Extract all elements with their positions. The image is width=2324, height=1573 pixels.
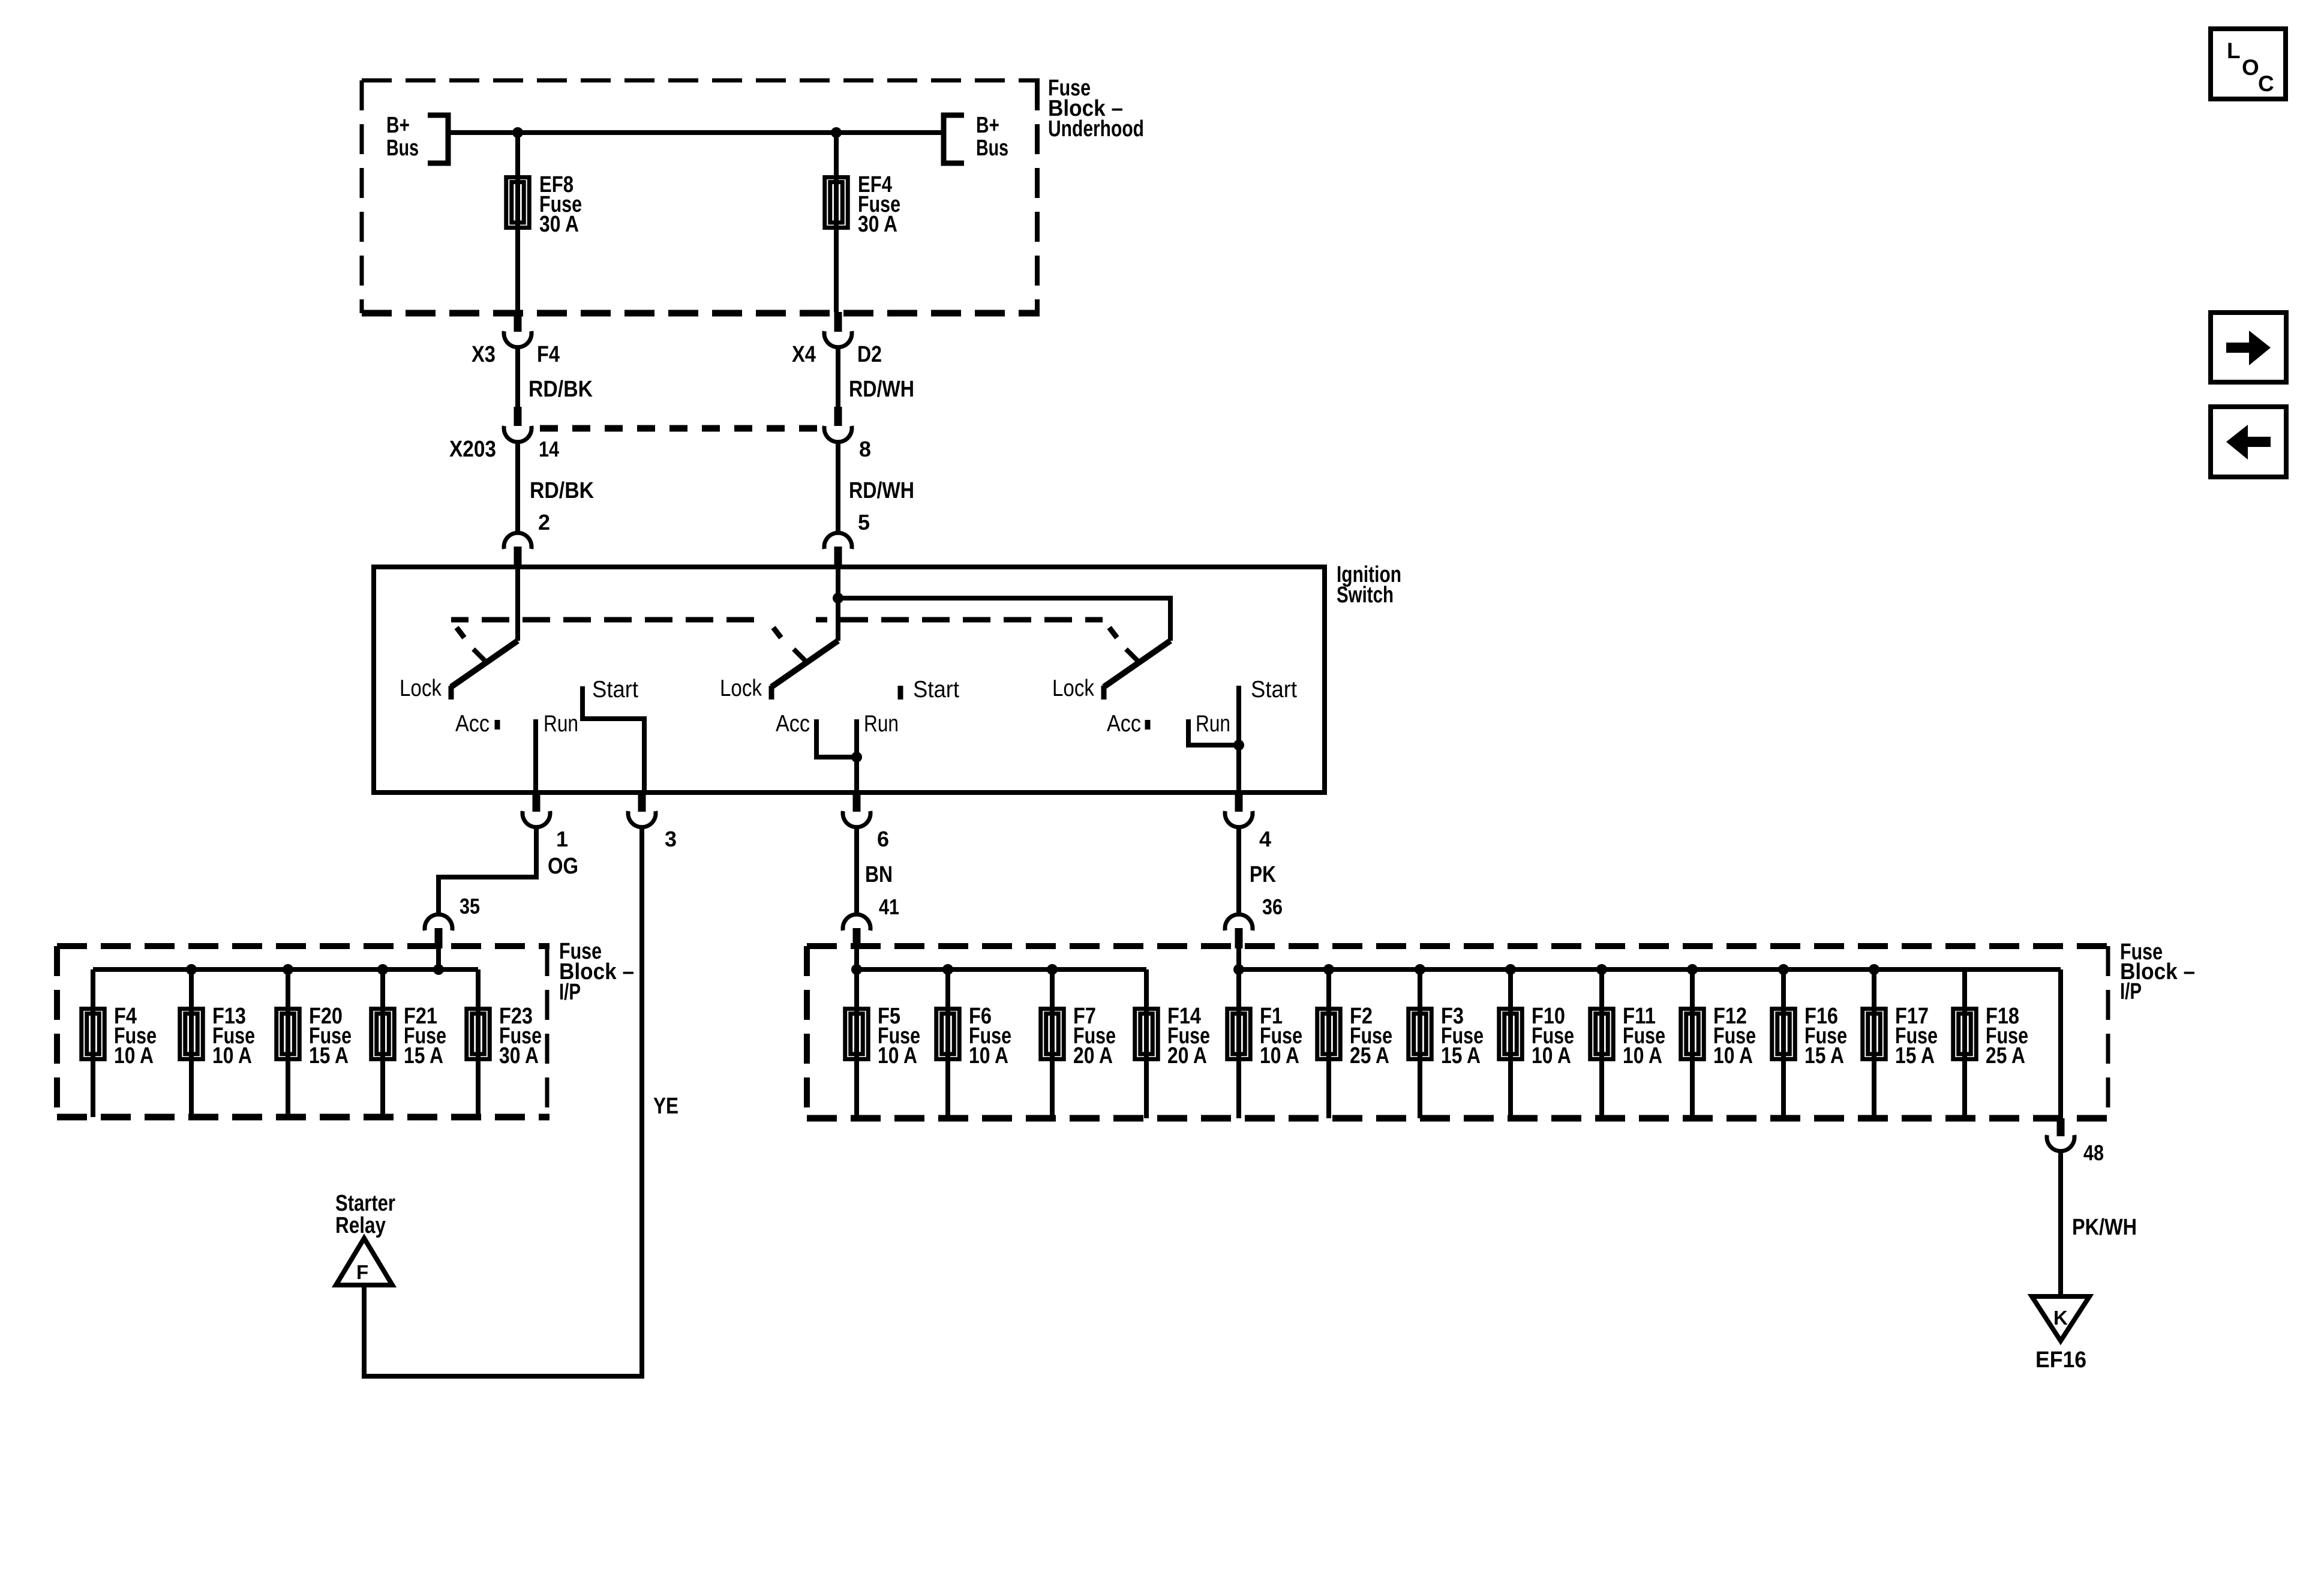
contact Acc C tick: [1145, 720, 1151, 730]
svg-text:10 A: 10 A: [1623, 1043, 1662, 1068]
fuse block IP right dashed box: [807, 943, 2110, 949]
node IP left bus feed: [433, 964, 444, 975]
svg-text:2: 2: [538, 510, 550, 535]
svg-text:10 A: 10 A: [114, 1043, 154, 1068]
node bus2 F10: [1505, 964, 1516, 975]
fuse F11: [1590, 1009, 1614, 1059]
node bus1 F6: [942, 964, 953, 975]
connector 35 cup: [425, 914, 452, 930]
connector 2 cup: [504, 533, 532, 549]
svg-text:Start: Start: [592, 677, 638, 703]
wire RD/BK lower: [515, 442, 520, 533]
wire F21: [380, 969, 385, 1117]
connector 6 cup: [843, 811, 870, 827]
svg-text:3: 3: [665, 827, 677, 851]
connector 35 pin: [435, 928, 443, 948]
svg-text:30 A: 30 A: [499, 1043, 539, 1068]
fuse F23: [467, 1009, 490, 1059]
switch blade C detent tick: [1126, 649, 1139, 662]
wire F5: [854, 969, 859, 1118]
svg-text:Lock: Lock: [400, 676, 442, 701]
svg-text:25 A: 25 A: [1350, 1043, 1389, 1068]
svg-text:15 A: 15 A: [1441, 1043, 1481, 1068]
wire connector36 to bus: [1236, 946, 1241, 969]
svg-text:K: K: [2053, 1307, 2068, 1329]
wire PK/WH: [2058, 1149, 2063, 1299]
svg-text:Relay: Relay: [335, 1213, 386, 1238]
right-arrow navigation box: [2211, 313, 2286, 382]
wire YE: [364, 825, 642, 1376]
wire F4: [91, 969, 95, 1117]
wire IP left bus: [93, 967, 478, 972]
switch linkage hook B: [773, 628, 781, 638]
fuse F14: [1135, 1009, 1158, 1059]
fuse F20: [277, 1009, 300, 1059]
svg-text:X3: X3: [472, 342, 496, 367]
wire F1: [1236, 969, 1241, 1118]
svg-text:Run: Run: [864, 711, 899, 737]
contact Acc A tick: [495, 720, 500, 730]
node bus2 F17: [1869, 964, 1879, 975]
svg-text:X4: X4: [792, 342, 816, 367]
svg-text:RD/BK: RD/BK: [529, 377, 593, 402]
wire IP right bus 1: [857, 967, 1146, 972]
connector 4 pin: [1235, 792, 1243, 812]
wire B+ bus: [448, 130, 944, 135]
contact Run A wire: [533, 719, 538, 792]
svg-text:PK: PK: [1250, 862, 1276, 887]
wire EF8: [515, 133, 520, 312]
node bus2 F1: [1233, 964, 1244, 975]
wire F13: [189, 969, 194, 1117]
connector 48 cup: [2047, 1135, 2074, 1151]
wire F17: [1872, 969, 1876, 1118]
wire F3: [1418, 969, 1422, 1118]
svg-text:Acc: Acc: [455, 711, 490, 737]
switch linkage dashed line left: [451, 617, 767, 623]
svg-text:BN: BN: [865, 862, 893, 887]
svg-text:5: 5: [858, 510, 870, 535]
svg-text:15 A: 15 A: [1804, 1043, 1844, 1068]
switch blade A detent tick: [473, 649, 487, 662]
svg-text:10 A: 10 A: [1260, 1043, 1299, 1068]
starter relay terminal F triangle: [336, 1238, 392, 1285]
contact Start C wire: [1236, 686, 1241, 792]
svg-text:F4: F4: [537, 342, 560, 367]
svg-text:Start: Start: [1251, 677, 1297, 703]
svg-text:8: 8: [859, 437, 871, 461]
connector 1 cup: [523, 811, 550, 827]
svg-text:10 A: 10 A: [212, 1043, 252, 1068]
svg-text:6: 6: [877, 827, 889, 851]
svg-text:36: 36: [1262, 894, 1283, 919]
fuse F18: [1953, 1009, 1977, 1059]
contact Lock C: [1101, 686, 1107, 700]
connector X3 cup: [504, 331, 532, 347]
svg-text:X203: X203: [449, 437, 496, 462]
node bus2 F3: [1415, 964, 1425, 975]
contact Acc B wire: [816, 719, 857, 757]
svg-text:Acc: Acc: [1107, 711, 1141, 737]
svg-text:10 A: 10 A: [1532, 1043, 1571, 1068]
svg-text:Run: Run: [544, 711, 578, 737]
fuse F16: [1772, 1009, 1795, 1059]
svg-text:30 A: 30 A: [539, 212, 579, 237]
svg-text:35: 35: [460, 894, 480, 918]
svg-text:41: 41: [879, 894, 899, 919]
svg-text:Starter: Starter: [335, 1191, 395, 1216]
fuse EF4: [825, 178, 848, 228]
fuse F2: [1317, 1009, 1341, 1059]
svg-text:YE: YE: [653, 1094, 678, 1119]
wire PK: [1236, 825, 1241, 915]
wire F6: [945, 969, 950, 1118]
contact Lock A: [449, 686, 454, 700]
wire RD/WH lower: [836, 442, 840, 533]
connector 36 pin: [1235, 928, 1243, 948]
left-arrow navigation box: [2211, 407, 2286, 477]
svg-text:RD/WH: RD/WH: [849, 478, 914, 503]
svg-text:15 A: 15 A: [404, 1043, 443, 1068]
wire switch feed B to C: [838, 598, 1170, 641]
wire connector41 to bus: [854, 946, 859, 969]
connector 2 pin: [514, 547, 522, 568]
contact Run B wire: [854, 719, 859, 792]
switch blade B detent tick: [794, 649, 807, 662]
svg-text:Run: Run: [1196, 711, 1230, 737]
connector X203 cup right: [824, 426, 852, 442]
fuse F12: [1681, 1009, 1704, 1059]
fuse F5: [845, 1009, 869, 1059]
svg-text:10 A: 10 A: [969, 1043, 1008, 1068]
svg-text:Switch: Switch: [1337, 583, 1394, 608]
connector 6 pin: [853, 792, 861, 812]
wire F23: [476, 969, 481, 1117]
node IP left bus F21: [377, 964, 388, 975]
svg-text:O: O: [2242, 55, 2259, 80]
fuse block IP left dashed box: [57, 943, 550, 949]
connector 5 pin: [834, 547, 842, 568]
wire F7: [1050, 969, 1055, 1118]
wire F16: [1781, 969, 1786, 1118]
svg-text:Lock: Lock: [720, 676, 762, 701]
B+ bus terminal right bracket: [944, 115, 964, 163]
contact Start A wire: [582, 686, 644, 792]
wire switch pole B input: [836, 567, 840, 641]
svg-text:25 A: 25 A: [1986, 1043, 2025, 1068]
svg-text:Bus: Bus: [976, 136, 1008, 161]
wire BN: [854, 825, 859, 915]
node bus2 F16: [1778, 964, 1789, 975]
wire OG: [439, 825, 536, 915]
fuse F10: [1499, 1009, 1523, 1059]
svg-text:F: F: [356, 1261, 368, 1283]
wire IP right bus 2: [1239, 967, 2061, 972]
svg-text:4: 4: [1259, 827, 1271, 851]
B+ bus terminal left bracket: [428, 115, 448, 163]
wire EF4: [834, 133, 839, 312]
node IP left bus F13: [186, 964, 197, 975]
wire F12: [1690, 969, 1695, 1118]
fuse F3: [1409, 1009, 1432, 1059]
connector X203 pin 8: [834, 407, 842, 426]
in-line harness dotted link X203: [540, 425, 824, 432]
connector 3 pin: [638, 792, 646, 812]
connector X4 cup: [824, 331, 852, 347]
wire switch pole A input: [515, 567, 520, 641]
wire F14: [1144, 969, 1149, 1118]
connector 41 cup: [843, 914, 870, 930]
svg-text:D2: D2: [857, 342, 882, 367]
wire F20: [286, 969, 290, 1117]
svg-text:L: L: [2227, 38, 2241, 63]
connector 3 cup: [628, 811, 656, 827]
connector 4 cup: [1225, 811, 1253, 827]
fuse F7: [1041, 1009, 1064, 1059]
switch blade B: [771, 641, 838, 687]
svg-text:RD/BK: RD/BK: [530, 478, 594, 503]
LOC reference box: [2211, 29, 2286, 99]
svg-text:10 A: 10 A: [878, 1043, 917, 1068]
fuse block underhood dashed box: [362, 79, 1040, 83]
power feed EF16 K triangle: [2032, 1296, 2089, 1341]
connector 48 pin: [2057, 1118, 2065, 1136]
node Run-Start junction C: [1233, 740, 1244, 751]
switch linkage hook A: [457, 628, 464, 638]
svg-text:I/P: I/P: [2120, 979, 2142, 1004]
node bus2 F12: [1687, 964, 1698, 975]
svg-text:14: 14: [539, 437, 559, 461]
connector X203 pin 14: [514, 407, 522, 426]
connector 5 cup: [824, 533, 852, 549]
fuse F17: [1863, 1009, 1886, 1059]
svg-text:EF16: EF16: [2035, 1347, 2086, 1373]
svg-text:48: 48: [2083, 1140, 2104, 1165]
svg-text:Underhood: Underhood: [1048, 116, 1144, 142]
svg-text:RD/WH: RD/WH: [849, 377, 914, 402]
wire F18: [1962, 969, 1967, 1118]
switch linkage dashed line right: [816, 617, 1103, 623]
svg-text:20 A: 20 A: [1073, 1043, 1113, 1068]
svg-text:Lock: Lock: [1052, 676, 1094, 701]
svg-text:B+: B+: [386, 113, 410, 138]
switch blade C: [1104, 641, 1170, 687]
contact Run C wire: [1188, 719, 1239, 745]
svg-text:Bus: Bus: [386, 136, 419, 161]
node junction EF8: [512, 127, 523, 138]
node IP left bus F20: [283, 964, 293, 975]
fuse F21: [371, 1009, 395, 1059]
fuse EF8: [506, 178, 530, 228]
connector 1 pin: [533, 792, 541, 812]
svg-text:OG: OG: [548, 854, 578, 879]
connector 36 cup: [1225, 914, 1253, 930]
svg-text:20 A: 20 A: [1167, 1043, 1207, 1068]
svg-text:B+: B+: [976, 113, 999, 138]
ignition switch box: [374, 567, 1325, 792]
connector X4 pin D2: [834, 312, 842, 332]
node switch feed B: [833, 593, 843, 604]
node Acc-Run junction B: [851, 752, 862, 763]
svg-text:Acc: Acc: [776, 711, 810, 737]
connector X203 cup left: [504, 426, 532, 442]
svg-text:Start: Start: [913, 677, 959, 703]
svg-text:10 A: 10 A: [1713, 1043, 1753, 1068]
switch blade A: [451, 641, 518, 687]
svg-text:30 A: 30 A: [858, 212, 897, 237]
fuse F4: [82, 1009, 105, 1059]
wire F2: [1326, 969, 1331, 1118]
svg-text:PK/WH: PK/WH: [2072, 1215, 2137, 1240]
connector X3 pin F4: [514, 312, 522, 332]
node bus2 F2: [1323, 964, 1334, 975]
wire connector35 to bus: [436, 946, 441, 969]
node bus2 F11: [1596, 964, 1607, 975]
fuse F1: [1227, 1009, 1251, 1059]
wire F11: [1599, 969, 1604, 1118]
contact Start B tick: [898, 686, 903, 700]
svg-text:I/P: I/P: [559, 980, 581, 1005]
node junction EF4: [831, 127, 842, 138]
svg-text:15 A: 15 A: [309, 1043, 349, 1068]
wire bus2 to connector 48: [2058, 969, 2063, 1118]
node bus1 F5: [851, 964, 862, 975]
wire RD/BK upper: [515, 347, 520, 410]
node bus1 F7: [1047, 964, 1058, 975]
fuse F6: [936, 1009, 960, 1059]
wire RD/WH upper: [836, 347, 840, 410]
wire F10: [1508, 969, 1513, 1118]
svg-text:1: 1: [556, 827, 568, 851]
switch linkage hook C: [1109, 628, 1117, 638]
connector 41 pin: [853, 928, 861, 948]
svg-text:C: C: [2258, 71, 2274, 96]
contact Lock B: [769, 686, 774, 700]
fuse F13: [180, 1009, 203, 1059]
svg-text:15 A: 15 A: [1895, 1043, 1935, 1068]
